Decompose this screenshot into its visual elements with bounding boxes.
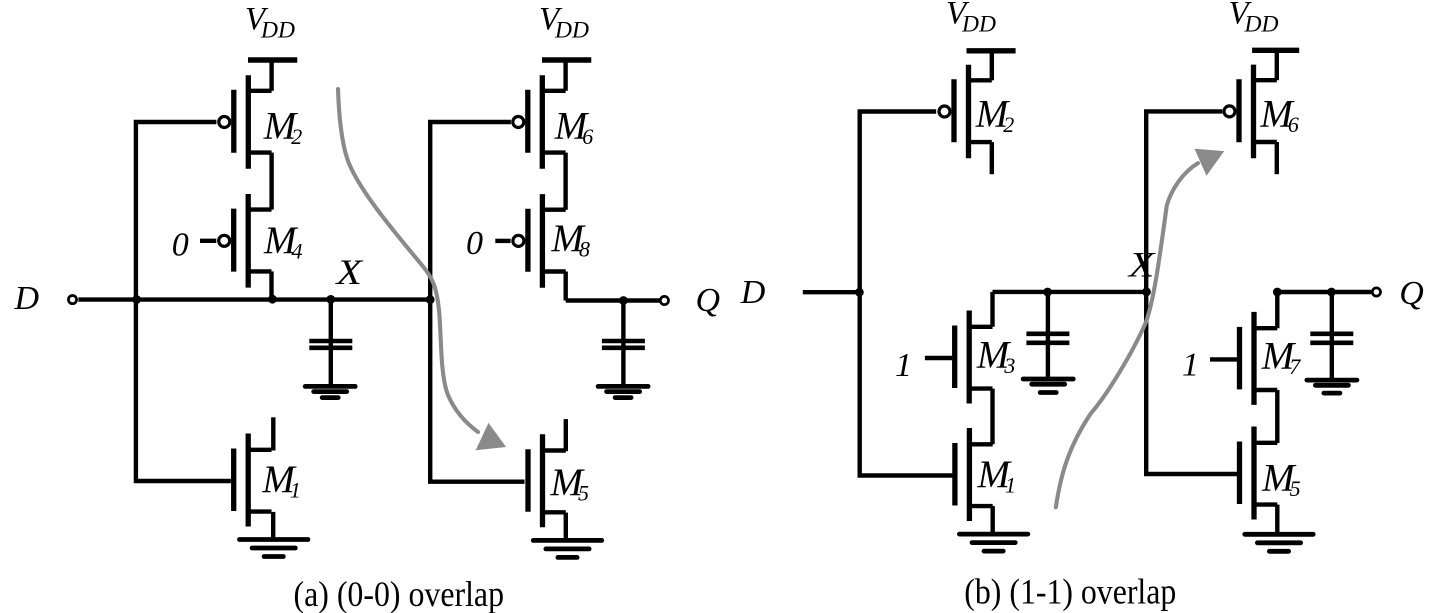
wire X to capacitor/ground (a) [329, 300, 333, 387]
wire 0 to M4 gate [200, 239, 216, 243]
wire X down to M3 drain (b) [990, 292, 994, 327]
svg-text:DD: DD [1244, 11, 1279, 37]
svg-text:2: 2 [291, 124, 302, 149]
wire M7 source to M5 drain (b) [1275, 390, 1279, 443]
junction Q capacitor tap (b) [1327, 288, 1336, 297]
wire VDD to M2 drain (b) [990, 51, 994, 81]
power VDD bar (a) left [248, 57, 297, 62]
annotation arrow (b) from M3-M1 branch to M6 [1056, 149, 1224, 508]
wire M6 source to M8 drain [563, 153, 567, 210]
svg-text:4: 4 [292, 238, 303, 263]
svg-text:5: 5 [578, 481, 589, 506]
svg-text:0: 0 [466, 225, 483, 262]
wire net Q horizontal (b) [1277, 290, 1371, 294]
svg-text:1: 1 [1005, 473, 1016, 498]
ground below X capacitor (b) [1023, 379, 1073, 393]
svg-text:DD: DD [961, 11, 996, 37]
svg-text:DD: DD [554, 18, 589, 44]
transistor M1 (b) (NMOS) [955, 428, 993, 521]
svg-text:Q: Q [1399, 275, 1424, 312]
transistor M2 (PMOS) [219, 75, 272, 169]
ground below M1 (b) [959, 534, 1027, 551]
wire net Q horizontal (a) [566, 298, 661, 302]
ground below M5 (a) [533, 540, 601, 557]
wire VDD to M6 drain (b) [1275, 50, 1279, 80]
svg-text:2: 2 [1003, 112, 1014, 137]
wire M3 source to M1 drain (b) [990, 389, 994, 445]
svg-text:DD: DD [260, 18, 295, 44]
svg-text:6: 6 [1288, 112, 1299, 137]
ground below M1 (a) [240, 540, 308, 557]
transistor M1 (NMOS) [234, 434, 272, 527]
wire M5 source to ground [564, 513, 568, 541]
wire X to capacitor/ground (b) [1046, 292, 1050, 379]
svg-text:7: 7 [1289, 354, 1301, 379]
transistor M8 (PMOS) [513, 194, 566, 288]
wire M5 source to ground (b) [1275, 505, 1279, 535]
wire Q down to M7 drain (b) [1275, 292, 1279, 328]
junction D junction (b) [855, 288, 864, 297]
ground below Q capacitor (b) [1307, 380, 1357, 393]
power VDD bar (a) right [542, 57, 591, 62]
wire net D horizontal (a) [78, 297, 433, 301]
transistor M2 (b) (PMOS) [939, 65, 992, 159]
transistor M5 (NMOS) [528, 434, 566, 527]
wire 1 to M3 gate [925, 356, 952, 360]
transistor M6 (PMOS) [513, 75, 566, 169]
transistor M6 (b) (PMOS) [1224, 65, 1277, 159]
wire M5 drain stub (open) [564, 419, 568, 451]
wire M2 source to M4 drain [269, 153, 273, 210]
wire M1 drain stub (open) [271, 417, 275, 450]
junction M4 source on rail [268, 295, 277, 304]
wire X rail to M6/M5 gates (a) [430, 122, 524, 482]
capacitor at node X (b) [1026, 334, 1069, 343]
junction node X (a) [326, 295, 335, 304]
capacitor at node X (a) [309, 341, 352, 348]
junction rail to M6/M5 gates [426, 295, 435, 304]
wire net X horizontal (b) [993, 290, 1147, 294]
junction X junction right (b) [1142, 288, 1151, 297]
svg-text:0: 0 [172, 226, 189, 263]
terminal Q output (a) [660, 296, 668, 304]
wire M8 source to node Q rail [564, 272, 568, 301]
svg-text:6: 6 [582, 124, 593, 149]
wire M1 source to ground (b) [991, 506, 995, 534]
svg-text:8: 8 [579, 237, 590, 262]
transistor M5 (b) (NMOS) [1240, 427, 1278, 520]
annotation arrow (a) from M2-M4 branch to M5 [338, 89, 506, 450]
wire VDD to M2 drain [269, 60, 273, 91]
wire D to M2/M1 gates (a) [136, 122, 231, 481]
junction Q at M7 drain (b) [1273, 288, 1282, 297]
svg-text:D: D [740, 274, 766, 311]
power VDD bar (b) right [1252, 48, 1299, 53]
capacitor at node Q (a) [602, 341, 645, 348]
svg-text:1: 1 [895, 347, 912, 384]
svg-text:X: X [1127, 245, 1156, 285]
junction D rail at x=136 [132, 295, 141, 304]
wire Q to capacitor/ground (b) [1330, 292, 1334, 380]
wire M4 source to node X rail [269, 271, 273, 299]
svg-text:1: 1 [290, 477, 301, 502]
ground below Q capacitor (a) [598, 386, 648, 397]
svg-text:(b) (1-1) overlap: (b) (1-1) overlap [964, 572, 1176, 612]
wire Q to capacitor/ground (a) [621, 301, 625, 387]
wire D to M2/M1 gates (b) [860, 112, 953, 476]
wire net D horizontal (b) [803, 290, 860, 294]
power VDD bar (b) left [967, 48, 1016, 53]
svg-text:Q: Q [696, 282, 721, 319]
transistor M3 (b) (NMOS) [955, 311, 993, 404]
ground below M5 (b) [1245, 534, 1313, 551]
capacitor at node Q (b) [1310, 334, 1353, 343]
svg-text:X: X [334, 252, 363, 292]
wire 1 to M7 gate [1210, 357, 1237, 361]
wire M1 source to ground [271, 512, 275, 540]
svg-text:D: D [14, 280, 40, 317]
wire M6 source stub (open) (b) [1275, 142, 1279, 174]
transistor M7 (b) (NMOS) [1240, 312, 1278, 405]
junction Q capacitor tap (a) [619, 296, 628, 305]
transistor M4 (PMOS) [219, 194, 272, 288]
svg-text:1: 1 [1182, 346, 1199, 383]
svg-text:(a) (0-0) overlap: (a) (0-0) overlap [294, 574, 505, 613]
wire 0 to M8 gate [495, 239, 510, 243]
wire X rail to M6/M5 gates (b) [1146, 111, 1237, 474]
ground below X capacitor (a) [305, 386, 355, 397]
svg-text:3: 3 [1003, 353, 1015, 378]
terminal D input (a) [68, 296, 76, 304]
wire M2 source stub (open) (b) [990, 142, 994, 174]
terminal Q output (b) [1372, 288, 1380, 296]
svg-text:5: 5 [1290, 476, 1301, 501]
junction X capacitor tap (b) [1043, 288, 1052, 297]
wire VDD to M6 drain [563, 60, 567, 91]
